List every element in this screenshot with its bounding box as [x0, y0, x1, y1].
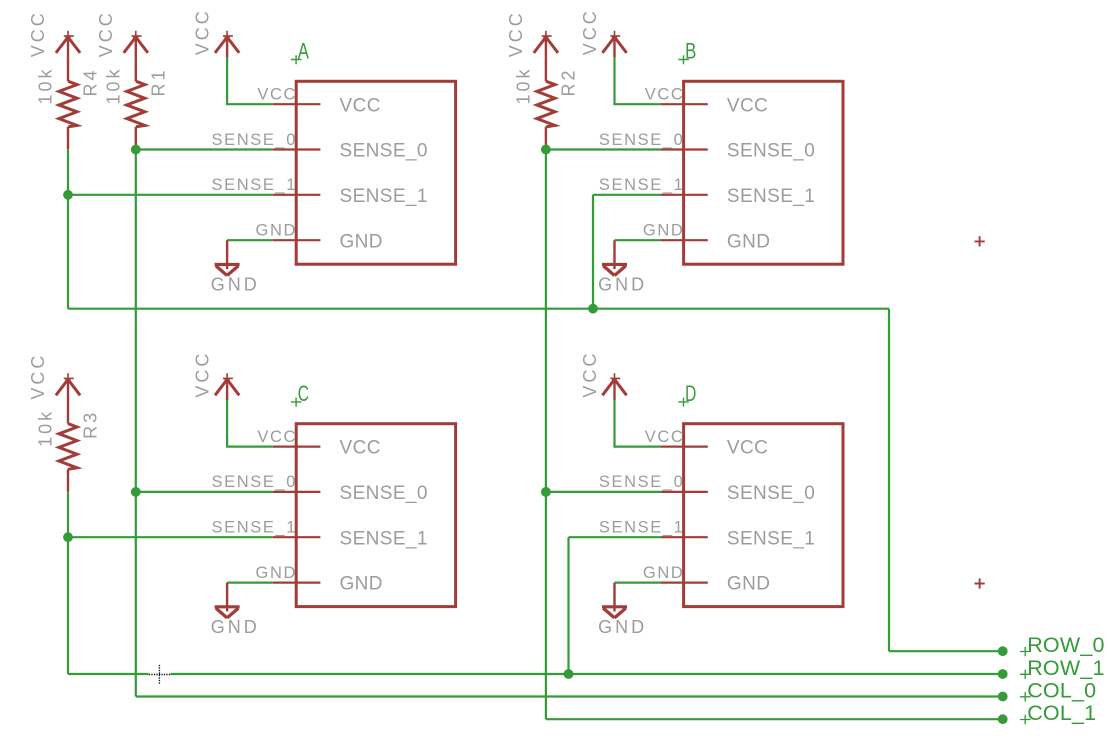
svg-text:GND: GND	[727, 574, 770, 595]
junction ROW_1 at R3	[63, 532, 73, 542]
svg-text:VCC: VCC	[96, 10, 116, 57]
wire COL_0 to A SENSE_0	[136, 148, 273, 150]
svg-text:10k: 10k	[36, 409, 56, 447]
GND symbol pin at B	[613, 240, 615, 269]
VCC supply symbol at B	[602, 31, 626, 58]
pin SENSE_0 of D	[660, 491, 708, 493]
wire COL_0 to C SENSE_0	[136, 491, 273, 493]
wire COL_0 across	[136, 695, 1003, 697]
svg-text:D: D	[685, 381, 696, 406]
svg-text:ROW_0: ROW_0	[1027, 633, 1104, 657]
xref cross COL_1	[1020, 715, 1031, 724]
wire ROW_1 D branch down	[567, 537, 569, 674]
svg-text:SENSE_0: SENSE_0	[212, 131, 298, 149]
svg-text:GND: GND	[340, 574, 383, 595]
wire COL_1 across	[546, 718, 1003, 720]
svg-text:VCC: VCC	[580, 8, 600, 55]
resistor R3 10k	[59, 400, 77, 492]
origin cross of B	[678, 55, 689, 64]
svg-text:GND: GND	[598, 617, 647, 637]
wire GND horizontal at A	[227, 239, 273, 241]
wire ROW_0 down right	[888, 309, 890, 652]
wire VCC vertical at D	[613, 400, 615, 447]
svg-text:10k: 10k	[103, 66, 123, 104]
GND symbol pin at A	[226, 240, 228, 269]
svg-text:A: A	[298, 39, 310, 64]
marker cross right upper	[975, 236, 985, 246]
svg-text:ROW_1: ROW_1	[1027, 656, 1104, 680]
VCC supply symbol at R2	[534, 31, 558, 58]
svg-text:COL_1: COL_1	[1027, 701, 1096, 725]
xref cross COL_0	[1020, 692, 1031, 701]
IC block D	[684, 424, 843, 607]
svg-text:R3: R3	[81, 410, 101, 439]
svg-text:R4: R4	[81, 67, 101, 96]
svg-text:SENSE_1: SENSE_1	[212, 519, 298, 537]
wire ROW_1 across	[68, 673, 1003, 675]
svg-text:VCC: VCC	[28, 10, 48, 57]
svg-text:VCC: VCC	[580, 351, 600, 398]
wire VCC horizontal at B	[613, 103, 660, 105]
svg-text:SENSE_0: SENSE_0	[340, 141, 428, 162]
wire COL_0 down	[135, 150, 137, 492]
svg-text:VCC: VCC	[645, 428, 685, 446]
svg-text:R2: R2	[558, 67, 578, 96]
svg-text:VCC: VCC	[727, 438, 768, 459]
junction COL_1 at D	[541, 487, 551, 497]
svg-text:SENSE_1: SENSE_1	[727, 528, 815, 549]
svg-text:VCC: VCC	[193, 8, 213, 55]
xref cross ROW_0	[1020, 647, 1031, 656]
VCC supply symbol at R3	[56, 373, 80, 400]
wire VCC horizontal at C	[226, 446, 273, 448]
svg-text:GND: GND	[211, 617, 260, 637]
svg-text:SENSE_1: SENSE_1	[727, 186, 815, 207]
svg-text:SENSE_0: SENSE_0	[599, 473, 685, 491]
wire VCC horizontal at A	[226, 103, 273, 105]
svg-text:VCC: VCC	[645, 86, 685, 104]
svg-text:C: C	[298, 381, 309, 406]
wire VCC vertical at B	[613, 58, 615, 105]
pin GND of B	[660, 239, 708, 241]
svg-text:R1: R1	[148, 67, 168, 96]
wire ROW_1 to C SENSE_1	[68, 536, 273, 538]
svg-text:SENSE_0: SENSE_0	[599, 131, 685, 149]
svg-text:VCC: VCC	[340, 95, 381, 116]
GND symbol pin at D	[613, 583, 615, 612]
wire ROW_0 to B SENSE_1	[593, 194, 660, 196]
svg-text:GND: GND	[256, 222, 297, 240]
svg-text:SENSE_1: SENSE_1	[599, 176, 685, 194]
marker cross right lower	[975, 578, 985, 588]
pin GND of A	[273, 239, 321, 241]
svg-text:SENSE_0: SENSE_0	[727, 141, 815, 162]
wire COL_1 to B SENSE_0	[546, 148, 660, 150]
origin cross of D	[678, 398, 689, 407]
svg-text:SENSE_1: SENSE_1	[599, 519, 685, 537]
resistor R4 10k	[59, 58, 77, 150]
wire ROW_0 B branch down	[592, 195, 594, 309]
wire ROW_1 down	[67, 537, 69, 674]
wire GND horizontal at C	[227, 581, 273, 583]
wire ROW_0 below R4	[67, 150, 69, 195]
pin VCC of B	[660, 103, 708, 105]
pin VCC of C	[273, 446, 321, 448]
ground symbol at C	[215, 607, 240, 618]
VCC supply symbol at C	[215, 373, 239, 400]
svg-text:SENSE_0: SENSE_0	[340, 483, 428, 504]
pin SENSE_1 of B	[660, 194, 708, 196]
svg-text:GND: GND	[643, 222, 684, 240]
resistor R1 10k	[127, 58, 145, 150]
VCC supply symbol at R1	[124, 31, 148, 58]
IC block A	[296, 81, 455, 264]
svg-text:GND: GND	[211, 275, 260, 295]
origin cross of A	[291, 55, 302, 64]
wire VCC vertical at C	[226, 400, 228, 447]
wire ROW_1 below R3	[67, 492, 69, 537]
VCC supply symbol at R4	[56, 31, 80, 58]
svg-text:VCC: VCC	[727, 95, 768, 116]
svg-text:VCC: VCC	[28, 353, 48, 400]
cursor crosshair	[149, 673, 171, 677]
svg-text:10k: 10k	[36, 66, 56, 104]
junction COL_1 at R2	[541, 145, 551, 155]
pin SENSE_0 of C	[273, 491, 321, 493]
net terminal ROW_1	[998, 669, 1008, 679]
junction COL_0 at C	[131, 487, 141, 497]
origin cross of C	[291, 398, 302, 407]
pin VCC of A	[273, 103, 321, 105]
svg-text:SENSE_1: SENSE_1	[212, 176, 298, 194]
svg-text:SENSE_0: SENSE_0	[212, 473, 298, 491]
wire ROW_0 across	[68, 308, 889, 310]
IC block C	[296, 424, 455, 607]
ground symbol at A	[215, 264, 240, 275]
svg-text:SENSE_1: SENSE_1	[340, 186, 428, 207]
net terminal COL_1	[998, 714, 1008, 724]
ground symbol at D	[602, 607, 627, 618]
wire VCC vertical at A	[226, 58, 228, 105]
xref cross ROW_1	[1020, 670, 1031, 679]
wire ROW_0 down	[67, 195, 69, 309]
wire COL_0 down lower	[135, 492, 137, 697]
pin GND of C	[273, 581, 321, 583]
ground symbol at B	[602, 264, 627, 275]
svg-text:COL_0: COL_0	[1027, 679, 1096, 703]
junction COL_0 at R1	[131, 145, 141, 155]
net terminal ROW_0	[998, 646, 1008, 656]
pin SENSE_1 of C	[273, 536, 321, 538]
wire ROW_1 to D SENSE_1	[569, 536, 661, 538]
wire GND horizontal at B	[615, 239, 661, 241]
svg-text:GND: GND	[643, 564, 684, 582]
pin GND of D	[660, 581, 708, 583]
wire ROW_0 to A SENSE_1	[68, 194, 273, 196]
pin SENSE_1 of A	[273, 194, 321, 196]
junction ROW_1 D branch	[564, 669, 574, 679]
wire COL_1 down	[545, 150, 547, 492]
GND symbol pin at C	[226, 583, 228, 612]
svg-text:GND: GND	[727, 231, 770, 252]
svg-text:SENSE_0: SENSE_0	[727, 483, 815, 504]
svg-text:VCC: VCC	[193, 351, 213, 398]
svg-text:VCC: VCC	[340, 438, 381, 459]
svg-text:GND: GND	[598, 275, 647, 295]
svg-text:GND: GND	[256, 564, 297, 582]
wire VCC horizontal at D	[613, 446, 660, 448]
svg-text:VCC: VCC	[257, 86, 297, 104]
svg-text:VCC: VCC	[506, 10, 526, 57]
IC block B	[684, 81, 843, 264]
wire COL_1 to D SENSE_0	[546, 491, 660, 493]
pin SENSE_1 of D	[660, 536, 708, 538]
junction ROW_0 at R4	[63, 190, 73, 200]
wire ROW_0 to terminal	[889, 650, 1003, 652]
net terminal COL_0	[998, 692, 1008, 702]
wire GND horizontal at D	[615, 581, 661, 583]
junction ROW_0 B branch	[588, 304, 598, 314]
pin SENSE_0 of B	[660, 148, 708, 150]
svg-text:B: B	[685, 39, 696, 64]
VCC supply symbol at A	[215, 31, 239, 58]
svg-text:VCC: VCC	[257, 428, 297, 446]
svg-text:SENSE_1: SENSE_1	[340, 528, 428, 549]
resistor R2 10k	[537, 58, 555, 150]
pin VCC of D	[660, 446, 708, 448]
svg-text:10k: 10k	[513, 66, 533, 104]
svg-text:GND: GND	[340, 231, 383, 252]
VCC supply symbol at D	[602, 373, 626, 400]
wire COL_1 down lower	[545, 492, 547, 719]
pin SENSE_0 of A	[273, 148, 321, 150]
